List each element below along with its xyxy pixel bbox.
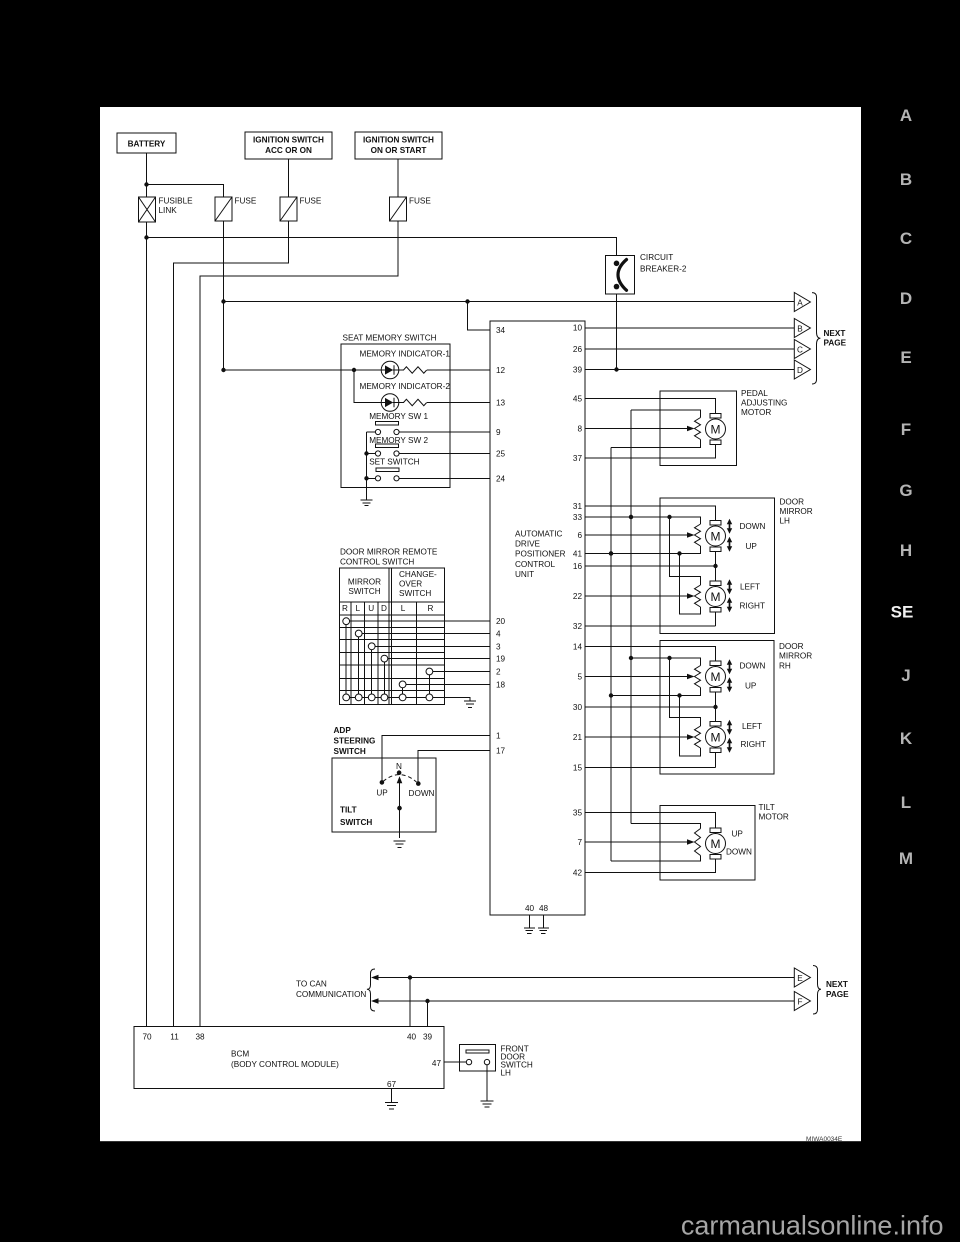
wire fuse F3 to BCM pin 38	[200, 221, 398, 1027]
wire pin 16 to LH motor common	[585, 564, 718, 568]
wire pin 10 to next-page connector B	[585, 327, 794, 329]
svg-text:SWITCH: SWITCH	[334, 747, 366, 756]
svg-text:STEERING: STEERING	[334, 737, 376, 746]
svg-text:19: 19	[496, 655, 506, 664]
pin labels bottom 40 48	[525, 904, 549, 913]
wire feed to memory indicators	[224, 368, 382, 403]
tilt motor UP DOWN labels	[726, 830, 752, 857]
svg-text:J: J	[901, 666, 910, 685]
wire front door switch to ground	[486, 1065, 488, 1101]
svg-text:MEMORY SW 1: MEMORY SW 1	[369, 412, 428, 421]
svg-text:PEDAL: PEDAL	[741, 389, 768, 398]
LH down-up direction arrows	[727, 519, 766, 552]
svg-text:SWITCH: SWITCH	[348, 587, 380, 596]
battery	[117, 133, 176, 153]
rail A (pedal resistor bottom / mirror commons)	[609, 448, 613, 861]
wire tilt switch DOWN contact to pin 17	[418, 751, 490, 783]
LH up-down resistor	[695, 524, 701, 546]
svg-text:34: 34	[496, 326, 506, 335]
svg-text:DOWN: DOWN	[409, 789, 435, 798]
svg-text:25: 25	[496, 450, 506, 459]
svg-text:5: 5	[577, 673, 582, 682]
svg-text:ON OR START: ON OR START	[371, 146, 427, 155]
wire pin 33 to LH up-down resistor top	[585, 515, 701, 524]
svg-text:30: 30	[573, 703, 583, 712]
svg-text:CHANGE-: CHANGE-	[399, 570, 437, 579]
fusible link	[139, 197, 194, 223]
svg-text:COMMUNICATION: COMMUNICATION	[296, 990, 366, 999]
branch pin 33 to LH left-right resistor top	[670, 517, 701, 585]
LH left-right resistor	[695, 585, 701, 607]
ignition switch ON OR START	[355, 132, 442, 159]
svg-text:PAGE: PAGE	[826, 990, 849, 999]
tilt switch contacts and labels	[376, 762, 434, 798]
wire circuit breaker to pin 39 row	[614, 294, 618, 372]
svg-text:TO CAN: TO CAN	[296, 980, 327, 989]
wire pin 8 to pedal potentiometer wiper	[585, 426, 695, 432]
svg-text:FUSIBLE: FUSIBLE	[159, 197, 194, 206]
svg-text:B: B	[900, 170, 912, 189]
wire fuse F1 down to memory indicator feed	[221, 221, 225, 372]
svg-text:M: M	[711, 670, 721, 684]
svg-text:LEFT: LEFT	[742, 722, 762, 731]
wire pin 35 to tilt motor top	[585, 813, 716, 829]
svg-text:2: 2	[496, 668, 501, 677]
svg-text:8: 8	[577, 425, 582, 434]
svg-text:39: 39	[573, 366, 583, 375]
svg-text:DOOR: DOOR	[779, 642, 804, 651]
memory switch 2	[367, 436, 491, 456]
svg-text:U: U	[368, 604, 374, 613]
changeover switch contact R, wire to pin 2	[426, 668, 490, 697]
seat memory switch box	[341, 334, 450, 488]
svg-text:MIWA0034E: MIWA0034E	[806, 1136, 843, 1143]
wire battery rail to BCM pin 70, junction to circuit breaker	[144, 222, 616, 1027]
svg-text:11: 11	[170, 1033, 179, 1042]
CAN wire low to next-page connector F	[371, 998, 794, 1004]
svg-text:TILT: TILT	[759, 803, 775, 812]
switch common wire to ground	[364, 432, 368, 500]
wire pin 30 to RH motor common	[585, 705, 718, 709]
svg-text:MOTOR: MOTOR	[759, 813, 789, 822]
svg-text:MOTOR: MOTOR	[741, 408, 771, 417]
LH left-right direction arrows	[727, 579, 765, 612]
pedal potentiometer resistor	[695, 418, 701, 440]
wire pin 15 to RH left-right motor bottom	[585, 767, 716, 769]
RH up-down motor M	[706, 661, 726, 722]
svg-text:LEFT: LEFT	[740, 583, 760, 592]
svg-text:ADP: ADP	[334, 726, 352, 735]
svg-text:35: 35	[573, 809, 583, 818]
svg-text:FUSE: FUSE	[409, 197, 431, 206]
svg-text:20: 20	[496, 617, 506, 626]
ADP steering switch title	[334, 726, 376, 756]
BCM body control module	[134, 1027, 444, 1090]
svg-text:4: 4	[496, 630, 501, 639]
svg-text:FUSE: FUSE	[300, 197, 322, 206]
svg-text:D: D	[797, 366, 803, 375]
next-page connector B	[794, 319, 810, 338]
ground pin 40	[524, 928, 535, 933]
side index letters	[891, 106, 914, 868]
door mirror remote control switch title	[340, 548, 438, 567]
svg-text:40: 40	[525, 904, 535, 913]
wire BCM pin 47 to front door switch	[444, 1061, 469, 1063]
wire pedal resistor bottom to rail A	[611, 440, 701, 448]
svg-text:SEAT MEMORY SWITCH: SEAT MEMORY SWITCH	[343, 334, 437, 343]
mirror switch contact L, wire to pin 4	[355, 630, 490, 697]
svg-text:SWITCH: SWITCH	[340, 818, 372, 827]
svg-text:UP: UP	[732, 830, 744, 839]
mirror switch contact R, wire to pin 20	[343, 618, 490, 698]
svg-text:16: 16	[573, 562, 583, 571]
svg-text:6: 6	[577, 531, 582, 540]
svg-text:14: 14	[573, 643, 583, 652]
svg-text:R: R	[428, 604, 434, 613]
ground ADP steering switch	[394, 841, 406, 847]
branch to RH left-right resistor bottom	[680, 696, 701, 757]
svg-text:BATTERY: BATTERY	[128, 140, 166, 149]
svg-text:G: G	[899, 481, 912, 500]
svg-text:17: 17	[496, 747, 506, 756]
svg-text:40: 40	[407, 1033, 417, 1042]
svg-text:LH: LH	[501, 1069, 512, 1078]
svg-text:MIRROR: MIRROR	[779, 652, 812, 661]
svg-text:MEMORY INDICATOR-2: MEMORY INDICATOR-2	[360, 382, 451, 391]
svg-text:M: M	[899, 849, 913, 868]
svg-text:3: 3	[496, 642, 501, 651]
wire pin 6 to LH up-down wiper	[585, 532, 695, 538]
pedal adjusting motor box	[660, 389, 787, 466]
svg-text:OVER: OVER	[399, 580, 422, 589]
wire rail A to RH up-down resistor bottom	[611, 688, 701, 698]
svg-text:CONTROL SWITCH: CONTROL SWITCH	[340, 557, 414, 566]
wire pin 37 to pedal motor bottom	[585, 445, 716, 459]
svg-text:F: F	[797, 997, 802, 1006]
wire pin 7 to tilt wiper	[585, 839, 695, 845]
svg-text:R: R	[342, 604, 348, 613]
svg-text:L: L	[901, 793, 911, 812]
RH up-down resistor	[695, 666, 701, 688]
pedal motor M	[706, 414, 726, 445]
svg-text:10: 10	[573, 324, 583, 333]
wire pin 14 to RH up-down motor top	[585, 647, 716, 662]
tilt motor M	[706, 828, 726, 859]
wire fuse F2 to BCM pin 11	[174, 221, 289, 1027]
svg-text:BREAKER-2: BREAKER-2	[640, 265, 687, 274]
wire pin 32 to LH left-right motor bottom	[585, 625, 716, 627]
RH left-right resistor	[695, 726, 701, 748]
wire CAN high to BCM pin 40	[409, 978, 411, 1027]
wire pin 21 to RH left-right wiper	[585, 734, 695, 740]
next page brace and label bottom	[813, 966, 849, 1015]
wire rail B to RH up-down resistor top	[631, 656, 701, 666]
switch common row and contacts to ground	[343, 694, 470, 701]
svg-text:38: 38	[195, 1033, 205, 1042]
door mirror RH box	[660, 641, 812, 775]
wire rail B to tilt resistor top	[631, 824, 701, 829]
svg-text:D: D	[900, 289, 912, 308]
tilt switch wiper arrow to ground	[397, 776, 403, 838]
ignition switch ACC OR ON	[245, 132, 332, 159]
next-page connector D	[794, 360, 810, 379]
svg-text:H: H	[900, 541, 912, 560]
ground changeover switch	[464, 701, 476, 707]
svg-text:33: 33	[573, 513, 583, 522]
svg-text:67: 67	[387, 1080, 397, 1089]
changeover switch contact L, wire to pin 18	[399, 681, 490, 697]
svg-text:37: 37	[573, 454, 583, 463]
svg-text:RIGHT: RIGHT	[740, 602, 765, 611]
LH up-down motor M	[706, 521, 726, 582]
svg-text:42: 42	[573, 869, 583, 878]
branch pin 41 to LH left-right resistor bottom	[680, 554, 701, 615]
svg-text:AUTOMATIC: AUTOMATIC	[515, 529, 563, 538]
svg-text:NEXT: NEXT	[826, 980, 848, 989]
wire pin 31 to LH up-down motor top	[585, 506, 716, 521]
svg-text:C: C	[900, 229, 912, 248]
wire battery to fusible link, junction to fuse F1	[144, 153, 223, 197]
svg-text:DRIVE: DRIVE	[515, 540, 541, 549]
wire BCM pin 67 to ground	[391, 1089, 393, 1103]
pin labels right side	[573, 324, 583, 878]
svg-text:RIGHT: RIGHT	[741, 740, 766, 749]
tilt potentiometer resistor	[695, 829, 701, 856]
wire row A to pin 34	[468, 302, 491, 331]
svg-text:UP: UP	[746, 542, 758, 551]
next-page connector E	[794, 968, 810, 987]
wire pedal resistor top to rail B	[631, 410, 701, 418]
next page brace and label top	[812, 293, 847, 384]
svg-text:ACC OR ON: ACC OR ON	[265, 146, 312, 155]
svg-text:NEXT: NEXT	[824, 329, 846, 338]
svg-text:B: B	[797, 324, 803, 333]
ground pin 48	[538, 928, 549, 933]
svg-text:12: 12	[496, 366, 506, 375]
svg-text:ADJUSTING: ADJUSTING	[741, 399, 787, 408]
wire ignition ACC to fuse F2	[288, 159, 290, 197]
svg-text:MEMORY INDICATOR-1: MEMORY INDICATOR-1	[360, 350, 451, 359]
next-page connector A	[794, 293, 810, 312]
svg-text:UP: UP	[745, 682, 757, 691]
svg-text:M: M	[711, 730, 721, 744]
mirror switch contact U, wire to pin 3	[368, 643, 490, 698]
svg-text:E: E	[900, 348, 911, 367]
LH left-right motor M	[706, 581, 726, 626]
svg-text:IGNITION SWITCH: IGNITION SWITCH	[253, 136, 324, 145]
ground front door switch	[481, 1101, 494, 1107]
svg-text:LINK: LINK	[159, 206, 178, 215]
svg-text:PAGE: PAGE	[824, 339, 847, 348]
set switch	[367, 458, 491, 481]
CAN wire high to next-page connector E	[371, 975, 794, 981]
svg-text:MIRROR: MIRROR	[780, 507, 813, 516]
svg-text:UNIT: UNIT	[515, 570, 534, 579]
svg-text:DOWN: DOWN	[740, 662, 766, 671]
svg-text:DOOR: DOOR	[780, 497, 805, 506]
wire pin 5 to RH up-down wiper	[585, 674, 695, 680]
automatic drive positioner control unit U1	[490, 321, 585, 915]
wire pin 41 to LH up-down resistor bottom	[585, 546, 701, 556]
wire CAN low to BCM pin 39	[427, 1001, 429, 1027]
svg-text:N: N	[396, 762, 402, 771]
svg-text:L: L	[401, 604, 406, 613]
svg-text:L: L	[356, 604, 361, 613]
svg-text:47: 47	[432, 1059, 442, 1068]
door mirror LH box	[660, 497, 813, 633]
rail B (pedal resistor top / mirror commons)	[629, 410, 633, 824]
svg-text:DOWN: DOWN	[726, 848, 752, 857]
door mirror remote control switch box and grid	[340, 568, 445, 705]
svg-text:M: M	[711, 590, 721, 604]
svg-text:21: 21	[573, 733, 583, 742]
wire pin 40 to ground	[528, 915, 530, 928]
svg-text:48: 48	[539, 904, 549, 913]
wire pin 39 to next-page connector D	[585, 369, 794, 371]
wire row A to next-page connector A	[224, 299, 795, 303]
svg-text:A: A	[797, 298, 803, 307]
svg-text:D: D	[381, 604, 387, 613]
svg-text:(BODY CONTROL MODULE): (BODY CONTROL MODULE)	[231, 1060, 339, 1069]
svg-text:E: E	[797, 974, 803, 983]
svg-text:1: 1	[496, 732, 501, 741]
circuit breaker CB-2	[606, 253, 687, 294]
svg-text:26: 26	[573, 345, 583, 354]
memory indicator-2 LED and resistor, wire to pin 13	[360, 382, 491, 411]
memory switch 1	[367, 412, 491, 435]
svg-text:carmanualsonline.info: carmanualsonline.info	[681, 1211, 944, 1241]
svg-text:18: 18	[496, 680, 506, 689]
svg-text:9: 9	[496, 428, 501, 437]
wire pin 48 to ground	[542, 915, 544, 928]
svg-text:FUSE: FUSE	[235, 197, 257, 206]
svg-text:DOWN: DOWN	[740, 522, 766, 531]
wire tilt switch UP contact to pin 1	[382, 736, 490, 782]
ADP steering switch box	[332, 758, 436, 832]
svg-text:DOOR MIRROR REMOTE: DOOR MIRROR REMOTE	[340, 548, 438, 557]
svg-text:MIRROR: MIRROR	[348, 577, 381, 586]
svg-text:TILT: TILT	[340, 806, 357, 815]
svg-text:70: 70	[142, 1033, 152, 1042]
svg-text:SE: SE	[891, 603, 914, 622]
svg-text:13: 13	[496, 399, 506, 408]
wire pin 45 to pedal motor top	[585, 399, 716, 414]
svg-text:BCM: BCM	[231, 1050, 249, 1059]
diagram background	[100, 107, 861, 1141]
svg-text:M: M	[711, 422, 721, 436]
tilt switch text	[340, 806, 372, 828]
front door switch LH	[460, 1045, 533, 1078]
mirror switch contact D, wire to pin 19	[381, 655, 490, 697]
RH left-right motor M	[706, 722, 726, 768]
svg-text:K: K	[900, 729, 913, 748]
svg-text:31: 31	[573, 502, 583, 511]
branch to RH left-right resistor top	[670, 658, 701, 726]
svg-text:A: A	[900, 106, 912, 125]
tilt motor box	[660, 803, 789, 880]
ground BCM pin 67	[385, 1103, 398, 1109]
next-page connector F	[794, 992, 810, 1011]
svg-text:CONTROL: CONTROL	[515, 560, 555, 569]
wire pin 42 to tilt motor bottom	[585, 859, 716, 873]
svg-text:UP: UP	[376, 789, 388, 798]
svg-text:SET SWITCH: SET SWITCH	[369, 458, 419, 467]
svg-text:POSITIONER: POSITIONER	[515, 550, 566, 559]
svg-text:LH: LH	[780, 517, 791, 526]
next-page connector C	[794, 340, 810, 359]
wire ignition ON/START to fuse F3	[397, 159, 399, 197]
wire rail A to tilt resistor bottom	[611, 856, 701, 862]
fuse F1	[215, 197, 257, 222]
pin labels left side	[496, 326, 506, 756]
RH down-up direction arrows	[727, 659, 766, 692]
svg-text:22: 22	[573, 592, 583, 601]
svg-text:15: 15	[573, 764, 583, 773]
svg-text:32: 32	[573, 622, 583, 631]
TO CAN COMMUNICATION label and brace	[296, 969, 375, 1011]
memory indicator-1 LED and resistor, wire to pin 12	[360, 350, 491, 379]
svg-text:IGNITION SWITCH: IGNITION SWITCH	[363, 136, 434, 145]
svg-text:SWITCH: SWITCH	[399, 589, 431, 598]
wire pin 26 to next-page connector C	[585, 348, 794, 350]
RH left-right direction arrows	[727, 720, 766, 753]
fuse F3	[390, 197, 432, 222]
svg-text:45: 45	[573, 395, 583, 404]
wire pin 22 to LH left-right wiper	[585, 593, 695, 599]
svg-text:39: 39	[423, 1033, 433, 1042]
ground seat memory switch	[361, 500, 373, 506]
svg-text:41: 41	[573, 550, 583, 559]
fuse F2	[280, 197, 322, 222]
svg-text:F: F	[901, 420, 911, 439]
svg-text:CIRCUIT: CIRCUIT	[640, 253, 673, 262]
svg-text:M: M	[711, 529, 721, 543]
svg-text:RH: RH	[779, 661, 791, 670]
svg-text:M: M	[711, 837, 721, 851]
svg-text:24: 24	[496, 474, 506, 483]
svg-text:C: C	[797, 345, 803, 354]
svg-text:7: 7	[577, 838, 582, 847]
